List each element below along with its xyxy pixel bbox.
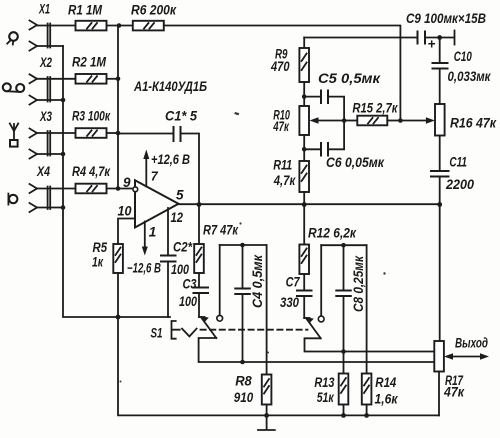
wire R3 to bus, node [107,132,119,134]
svg-text:X2: X2 [39,55,52,70]
svg-text:R13: R13 [314,375,334,390]
S1a top line [220,244,267,246]
svg-text:R2 1M: R2 1M [72,55,107,70]
node R1/bus junction [117,23,122,28]
svg-text:X4: X4 [36,164,50,179]
wire S1b contact up [320,245,322,316]
wire top rail R6 to right, corner down to R15 junction [164,26,401,121]
resistor R1 1M [68,3,107,31]
svg-text:C8 0,25мк: C8 0,25мк [351,255,366,312]
svg-text:100: 100 [179,294,197,309]
wire X4 bottom to bus, node [37,207,63,209]
capacitor C8 0.25uF [336,245,366,373]
bottom ground bus [118,317,439,415]
svg-text:10: 10 [118,204,132,219]
svg-text:1,6к: 1,6к [375,392,399,407]
svg-text:47к: 47к [443,385,465,400]
-12.6V supply arrow pin 1 [127,222,161,276]
svg-text:R16 47к: R16 47к [450,116,497,131]
svg-text:0,033мк: 0,033мк [448,69,492,84]
svg-text:+: + [428,36,436,51]
resistor R5 1k [92,240,123,273]
capacitor C4 0.5uF [235,245,265,362]
svg-text:X3: X3 [39,109,52,124]
svg-text:R12 6,2к: R12 6,2к [308,226,357,241]
svg-text:12: 12 [171,210,184,225]
resistor R15 2.7k [342,101,399,126]
S1b lever bottom step and mid tone bus [305,338,435,351]
wire X3 top to R3 [37,132,76,134]
wire S1a contact up [219,245,221,315]
resistor R14 1.6k [362,374,399,407]
wire R4 to op-amp pin 9 [107,188,133,190]
svg-text:R14: R14 [375,375,396,390]
wire X3 bottom to bus, node [37,153,63,155]
+12.6V supply arrow pin 7 [143,150,190,187]
resistor R13 51k [314,374,348,406]
svg-text:100: 100 [171,262,189,277]
capacitor C6 0.05uF [302,121,385,171]
capacitor C2* 100 [161,240,193,318]
svg-text:R15 2,7к: R15 2,7к [352,101,398,116]
svg-text:S1: S1 [151,326,163,341]
resistor R4 4.7k [72,164,111,193]
svg-text:−12,6 В: −12,6 В [127,261,161,276]
supply terminal bar [454,31,456,45]
wire X2 top to R2 [37,78,76,80]
resistor R11 4.7k [273,158,309,193]
svg-text:C5 0,5мк: C5 0,5мк [318,71,381,86]
potentiometer R17 47k output [434,336,489,400]
wire R2 to bus, node [107,78,119,80]
pin 12 wire to C2 [167,208,169,255]
connector X3 [30,109,53,159]
svg-text:R7 47к: R7 47к [203,223,239,238]
output rail from pin 5 [178,203,440,205]
microphone icon [7,32,18,44]
capacitor C9 100uF electrolytic [406,11,486,51]
resistor R7 47k [194,205,239,274]
resistor R6 200k [131,3,177,31]
svg-text:9: 9 [123,175,131,190]
svg-text:C4 0,5мк: C4 0,5мк [250,254,265,308]
capacitor C7 330 [280,274,312,318]
tape recorder icon [3,83,24,92]
svg-text:C10: C10 [454,49,472,64]
potentiometer R16 47k [435,104,497,136]
capacitor C10 0.033uF [433,38,492,105]
left ground bus [63,46,170,317]
node R5/C2/left-bus/bottom-bus [116,315,121,320]
svg-text:C3: C3 [183,277,197,292]
svg-text:1: 1 [149,225,157,240]
capacitor C5 0.5uF [304,71,381,121]
switch S1 pole a [199,315,223,338]
potentiometer R10 47k [273,106,345,135]
svg-text:Выход: Выход [455,336,488,351]
svg-text:R3 100к: R3 100к [72,109,111,124]
antenna icon [10,124,18,147]
svg-text:C7: C7 [286,275,301,290]
svg-text:R11: R11 [273,158,292,173]
resistor R8 910 [234,245,272,405]
wire S1b right branch down to R14 [366,245,368,373]
input summing bus [117,26,119,189]
svg-text:R8: R8 [235,374,252,389]
wire X1 top to R1 [37,25,76,27]
svg-text:C2*: C2* [173,240,193,255]
wire X4 top to R4 [37,188,76,190]
connector X4 [30,164,51,212]
svg-text:4,7к: 4,7к [273,173,296,188]
capacitor C3 100 [179,273,208,317]
ground [258,415,275,430]
pickup icon [8,194,17,205]
wire R15 to R16 wiper [387,120,400,122]
op-amp U1 A1 K140UD1B [118,79,208,240]
svg-text:R1 1M: R1 1M [68,3,103,18]
svg-text:47к: 47к [273,119,290,134]
capacitor C11 2200 [431,136,474,205]
resistor R3 100k [72,109,111,138]
svg-text:А1-К140УД1Б: А1-К140УД1Б [133,79,207,94]
svg-text:C1* 5: C1* 5 [165,109,197,124]
S1 actuator bracket [151,321,308,341]
svg-text:C11: C11 [449,155,467,170]
wire R9 top line to C9 [304,37,416,39]
connector X2 [30,55,53,105]
svg-text:51к: 51к [317,390,335,405]
resistor R2 1M [72,55,107,84]
wire R1 to R6 with node [107,25,133,27]
svg-text:+12,6 В: +12,6 В [151,152,190,167]
wire X1 bottom to left bus [37,45,63,47]
resistor R9 470 [270,38,309,83]
svg-text:330: 330 [280,295,299,310]
wire R5 bottom to ground line [117,273,119,317]
wire right column down to R17 [439,205,441,342]
switch S1 pole b [304,316,324,338]
S1b top line [321,244,366,246]
wire X2 bottom to bus, node [37,99,63,101]
svg-text:5: 5 [176,188,184,203]
svg-text:910: 910 [234,390,254,405]
pin 10 wire to R5 [118,219,135,245]
resistor R12 6.2k [299,205,357,275]
S1a lever bottom step and lower tone bus [199,338,435,362]
capacitor C1* 5 [118,109,199,205]
svg-text:R5: R5 [93,240,108,255]
svg-text:2200: 2200 [445,177,474,192]
svg-text:C6 0,05мк: C6 0,05мк [326,155,385,170]
svg-text:X1: X1 [38,2,50,17]
svg-text:R6 200к: R6 200к [131,3,177,18]
svg-text:C9 100мк×15В: C9 100мк×15В [406,11,486,26]
svg-text:1к: 1к [92,255,104,270]
svg-text:R4 4,7к: R4 4,7к [72,164,111,179]
scan specks [120,112,386,383]
connector X1 [30,2,51,51]
svg-text:470: 470 [270,59,290,74]
svg-text:7: 7 [151,170,159,184]
